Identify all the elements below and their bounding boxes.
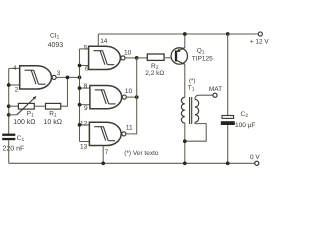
svg-text:6: 6 xyxy=(85,66,89,73)
svg-text:+ 12 V: + 12 V xyxy=(250,39,269,46)
svg-text:12: 12 xyxy=(80,121,88,128)
svg-text:10: 10 xyxy=(125,88,133,95)
node: T1 return junction xyxy=(183,139,187,143)
wire: P1 to R1 xyxy=(34,105,45,107)
svg-text:8: 8 xyxy=(84,83,88,90)
capacitor C1 xyxy=(2,134,15,141)
transformer T1 primary winding xyxy=(181,97,184,123)
svg-text:CI1: CI1 xyxy=(50,32,60,40)
wire: pin9 stub xyxy=(80,104,90,106)
svg-text:T1: T1 xyxy=(188,85,195,93)
wire: gate1 input 4 stub xyxy=(9,67,20,69)
svg-text:10: 10 xyxy=(124,49,132,56)
svg-text:11: 11 xyxy=(126,124,133,131)
transformer T1 core xyxy=(190,97,192,124)
svg-text:3: 3 xyxy=(57,70,61,77)
node: pin12 junction xyxy=(78,123,82,127)
svg-text:(*): (*) xyxy=(189,77,195,84)
svg-text:9: 9 xyxy=(84,105,88,112)
node: P1 wiper junction xyxy=(7,113,11,117)
node: pin8 junction xyxy=(78,86,82,90)
svg-text:13: 13 xyxy=(80,144,88,151)
node: pin7 on ground rail xyxy=(101,161,105,165)
wire: R2 to Q1 base xyxy=(164,57,175,59)
node: P1 track junction xyxy=(7,104,11,108)
wire: C1 to ground rail xyxy=(8,140,10,163)
wire: gate3 output to output bus xyxy=(126,96,136,98)
svg-text:10 kΩ: 10 kΩ xyxy=(44,118,62,126)
svg-text:2,2 kΩ: 2,2 kΩ xyxy=(145,70,164,77)
terminal 0V xyxy=(255,161,259,165)
NAND gate CI1c (pins 8,9 -> 10) xyxy=(90,86,126,109)
wire: left rail upper (gate1 inputs vertical) xyxy=(8,68,10,133)
svg-text:P1: P1 xyxy=(27,111,34,119)
svg-text:100 kΩ: 100 kΩ xyxy=(13,118,35,126)
wire: T1 secondary top to MAT terminal xyxy=(195,95,213,99)
wire: C2 to ground rail xyxy=(227,125,229,163)
wire: R1 feedback to gate1 output xyxy=(61,77,68,106)
wire: Q1 emitter to +12V rail xyxy=(184,34,186,48)
wire: P1 wiper lead xyxy=(9,114,17,116)
node: pin9 junction xyxy=(78,103,82,107)
wire: pin6 stub xyxy=(80,65,89,67)
svg-text:4093: 4093 xyxy=(48,42,64,49)
resistor R2 xyxy=(147,54,164,60)
terminal +12V xyxy=(258,32,262,36)
wire: pin14 supply riser xyxy=(97,34,99,46)
wire: gate4 output up to output bus xyxy=(126,58,137,134)
NAND gate CI1a (pins 4,2 -> 3) xyxy=(20,66,56,89)
transformer T1 secondary winding xyxy=(195,99,199,122)
svg-text:0 V: 0 V xyxy=(250,154,260,161)
svg-text:R1: R1 xyxy=(49,111,57,119)
wire: P1 left terminal xyxy=(9,105,19,107)
resistor R1 xyxy=(46,103,61,109)
transistor Q1 xyxy=(171,48,187,65)
wire: C2 riser from top rail xyxy=(227,34,229,115)
potentiometer P1 xyxy=(17,96,37,115)
node: T1 on ground rail xyxy=(183,161,187,165)
svg-text:220 nF: 220 nF xyxy=(3,146,25,153)
wire: pin8 stub xyxy=(80,87,90,89)
wire: 0V ground rail xyxy=(9,162,255,164)
NAND gate CI1d (pins 12,13 -> 11) xyxy=(89,122,125,145)
terminal MAT xyxy=(213,93,217,97)
wire: gate2 output to output bus xyxy=(125,57,137,59)
wire: input bus vertical xyxy=(79,49,81,142)
node: feedback junction xyxy=(66,76,70,80)
svg-text:TIP125: TIP125 xyxy=(192,56,213,63)
svg-text:MAT: MAT xyxy=(209,86,222,93)
wire: pin13 stub xyxy=(80,141,90,143)
svg-text:2: 2 xyxy=(15,87,19,94)
svg-text:(*) Ver texto: (*) Ver texto xyxy=(124,150,159,157)
wire: Q1 collector down to T1 xyxy=(184,64,186,97)
svg-text:5: 5 xyxy=(84,44,88,51)
wire: T1 primary bottom to ground xyxy=(184,123,186,163)
node: pin6 junction xyxy=(78,64,82,68)
wire: gate1 output to input bus xyxy=(56,76,79,78)
node: output on input bus xyxy=(78,76,82,80)
node: emitter on top rail xyxy=(183,32,187,36)
svg-text:14: 14 xyxy=(100,38,108,45)
svg-text:100 µF: 100 µF xyxy=(235,122,255,129)
wire: gate1 input 2 stub xyxy=(9,84,20,86)
wire: +12V top rail xyxy=(98,33,258,35)
wire: pin5 stub xyxy=(80,48,89,50)
svg-text:4: 4 xyxy=(13,65,17,72)
NAND gate CI1b (pins 5,6 -> 10) xyxy=(89,46,125,69)
wire: pin7 ground riser xyxy=(102,146,104,164)
node: gate3 output junction on bus xyxy=(135,95,139,99)
wire: T1 secondary bottom return xyxy=(185,122,206,141)
svg-text:7: 7 xyxy=(105,149,109,156)
node: C2 on top rail xyxy=(226,32,230,36)
svg-text:Q1: Q1 xyxy=(197,47,205,55)
node: gate1 input2 junction xyxy=(7,83,11,87)
node: gate2 output junction on bus xyxy=(135,56,139,60)
wire: pin12 stub xyxy=(80,124,90,126)
svg-text:C1: C1 xyxy=(17,135,25,143)
node: C2 on ground rail xyxy=(226,161,230,165)
capacitor C2 (electrolytic) xyxy=(221,116,235,126)
svg-text:C2: C2 xyxy=(241,111,249,119)
wire: output bus to R2 xyxy=(137,57,148,59)
